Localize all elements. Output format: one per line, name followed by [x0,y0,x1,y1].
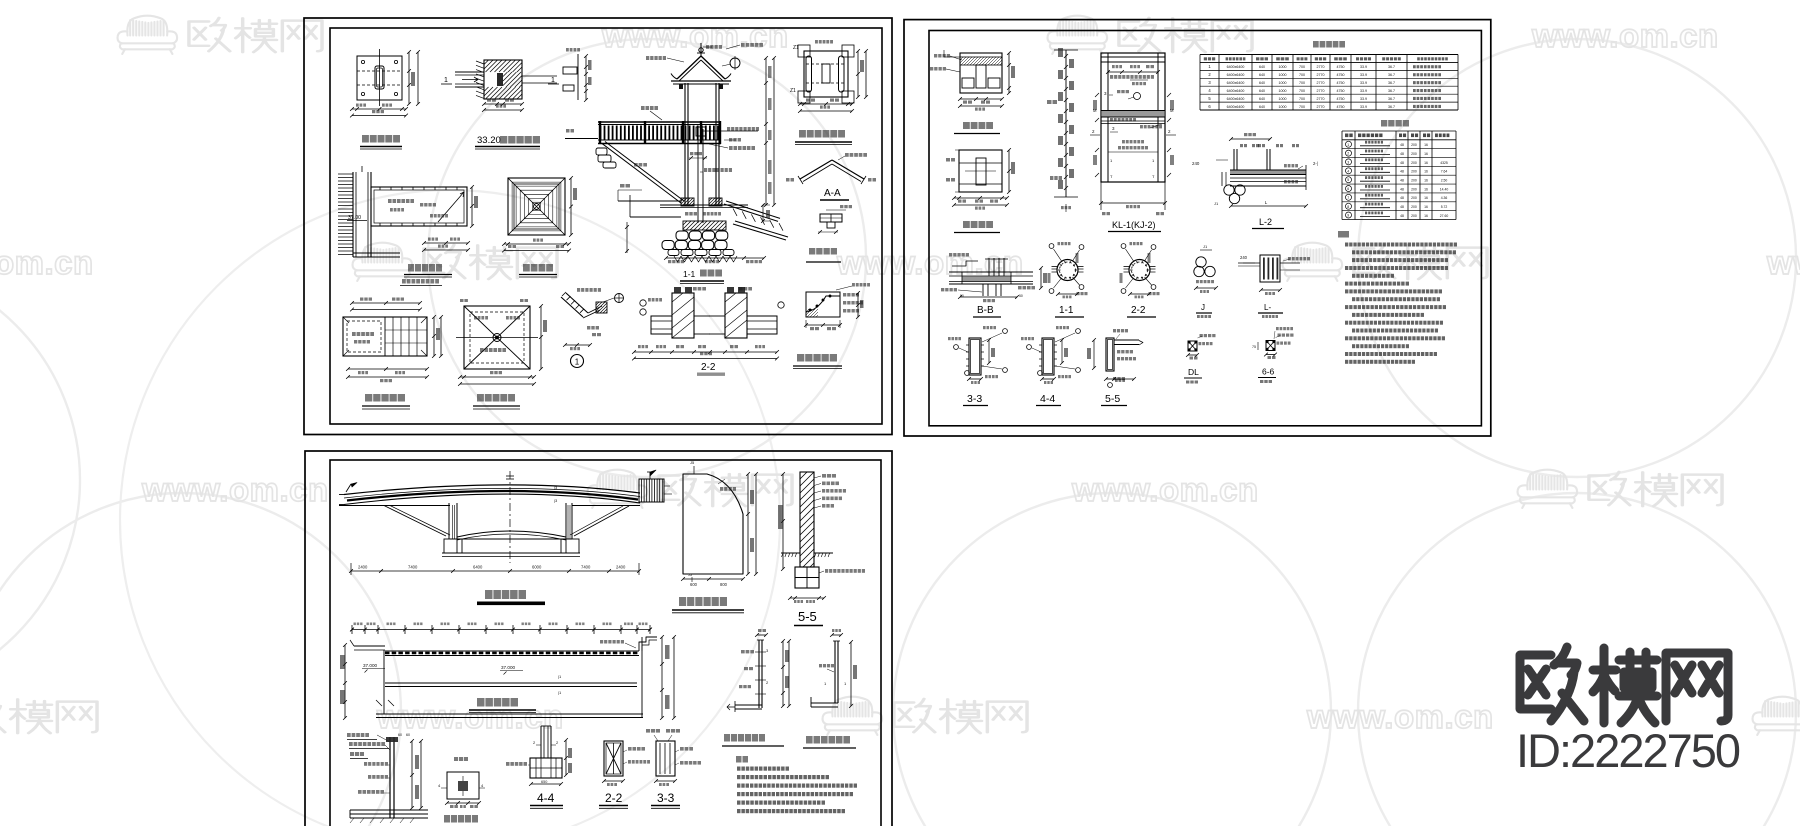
label: railing anchor title [806,736,813,744]
svg-text:2400: 2400 [358,565,368,570]
roof plan dims [570,178,572,235]
svg-text:B-B: B-B [977,305,994,316]
svg-text:2.50: 2.50 [1441,179,1448,183]
detail: cornice rebar section [806,292,840,317]
svg-text:48: 48 [1400,179,1404,183]
svg-text:2-2: 2-2 [701,362,716,373]
svg-text:16: 16 [1424,187,1428,191]
eave detail dim [565,344,590,346]
svg-text:J: J [1201,303,1205,312]
railing foundation right dims [411,741,413,808]
pavilion base platform [660,204,748,206]
svg-text:60: 60 [406,733,410,737]
section 5-5: wall with hatch [800,472,814,567]
B-B lower posts [982,284,984,296]
L-2 pile circles [1224,185,1234,195]
dim right of second-floor plan [471,187,473,226]
dim chain below 3320 detail [484,103,522,105]
label: base slab rebar title [963,221,970,228]
2-2 dim line [634,351,777,353]
svg-text:6-6: 6-6 [1262,367,1275,377]
watermark tiles: sofa + brand + www.om.cn [118,16,178,54]
notes text block sheet 2 [1345,243,1348,247]
svg-text:48: 48 [1400,196,1404,200]
svg-text:7.64: 7.64 [1441,170,1448,174]
svg-text:33.9: 33.9 [1360,97,1367,101]
svg-text:4.36: 4.36 [1441,196,1448,200]
detail: B-B beam section [949,253,952,257]
ramp dim bracket [762,205,764,221]
svg-text:200: 200 [1411,143,1417,147]
svg-text:2-2: 2-2 [605,791,623,805]
stair stones left [596,148,607,155]
svg-text:3: 3 [1347,161,1349,165]
2-2 right beam [747,316,777,334]
dims above second-floor label [424,242,468,244]
detail: brick pad plan [454,757,458,761]
svg-text:640: 640 [1259,89,1265,93]
svg-text:1: 1 [444,77,448,84]
dim chain below first-floor plan [352,108,406,110]
svg-text:J5: J5 [688,573,692,577]
pavilion columns [684,83,686,205]
bridge elevation: arch between piers [457,531,566,537]
svg-text:200: 200 [1411,205,1417,209]
svg-text:6400x6400: 6400x6400 [1227,73,1245,77]
5-5 left dim [782,474,784,569]
wing wall right dims [747,474,749,574]
plan: roof plan (hip) [508,178,565,235]
svg-text:700: 700 [1299,97,1305,101]
svg-text:A-A: A-A [824,188,841,199]
svg-text:200: 200 [1411,214,1417,218]
svg-text:48: 48 [1400,187,1404,191]
detail: 3-3 column section [969,338,981,375]
anchor post right dim [850,642,852,706]
stone foundation stack [676,231,688,240]
svg-text:200: 200 [1411,152,1417,156]
svg-text:33.9: 33.9 [1360,89,1367,93]
second-floor structure dims below [348,368,427,370]
svg-text:6400x6400: 6400x6400 [1227,105,1245,109]
svg-text:1000: 1000 [1279,73,1287,77]
svg-text:16: 16 [1424,170,1428,174]
svg-text:4750: 4750 [1337,73,1345,77]
plan: first-floor column plan [357,56,402,100]
bridge railing band with balusters [598,121,721,123]
svg-text:4750: 4750 [1337,81,1345,85]
svg-text:800: 800 [720,582,728,587]
svg-text:16: 16 [1424,214,1428,218]
L-2 bottom beam [1230,181,1306,183]
svg-text:4750: 4750 [1337,105,1345,109]
dim chain right of first-floor plan [408,52,410,104]
svg-text:650: 650 [541,780,547,784]
svg-text:36.7: 36.7 [1388,97,1395,101]
svg-text:6000: 6000 [532,565,542,570]
pier cap dims [1008,53,1010,93]
sheet 3 inner border [330,460,881,826]
svg-text:5.72: 5.72 [1441,205,1448,209]
label: bridge plan title [477,698,485,707]
detail: hanging beam end [820,214,842,222]
svg-text:700: 700 [1299,89,1305,93]
svg-text:37.000: 37.000 [501,665,515,670]
label: wing wall title [679,597,686,606]
sheet 1 inner border [330,28,882,424]
svg-text:48: 48 [1400,170,1404,174]
bridge elevation: main beam thick line [347,491,638,501]
svg-text:640: 640 [1259,73,1265,77]
elevation annotation chain [1065,50,1067,197]
svg-text:1-1: 1-1 [1059,305,1074,316]
label: roof plan title [523,264,530,272]
plan: roof structure plan [464,306,530,369]
plan: second-floor structure plan [352,302,420,304]
detail: 4-4 column section [1042,338,1054,375]
L-2 bottom dim [1231,205,1306,207]
plan: first-floor structure plan [804,51,848,97]
site brand caption: om brand glyphs [1520,647,1728,723]
bridge elevation: embankment slopes [384,506,446,537]
svg-text:4750: 4750 [1337,89,1345,93]
svg-text:2770: 2770 [1317,89,1325,93]
detail: railing post foundation labels [347,733,351,737]
B-B dim and label [960,296,1017,298]
svg-text:1: 1 [575,358,580,367]
svg-text:36.7: 36.7 [1388,89,1395,93]
floor hatch strip [683,221,726,230]
svg-text:7400: 7400 [581,565,591,570]
mid column note [704,168,707,172]
detail: 2-2 circular pier section [1129,260,1150,281]
svg-text:www.om.cn: www.om.cn [601,17,789,54]
detail: A-A ridge section [800,160,864,179]
sheet 2 inner border [929,31,1481,426]
svg-text:6400x6400: 6400x6400 [1227,97,1245,101]
label: railing foundation title [444,815,450,823]
mid-post right dims [782,641,784,706]
sheet 1 outer border [304,18,892,435]
ground hatch under foundation [674,256,681,262]
svg-text:www.om.cn: www.om.cn [1531,17,1719,54]
detail: railing mid-post rebar [757,634,766,636]
svg-text:4750: 4750 [1337,65,1345,69]
bridge elevation: center axis [509,471,511,563]
svg-text:4-4: 4-4 [1040,393,1055,405]
railing leader note [641,106,645,110]
svg-text:1000: 1000 [1279,65,1287,69]
foundation dim line [666,257,764,259]
svg-text:640: 640 [1259,105,1265,109]
table: KL-1 rebar schedule [1342,130,1456,132]
svg-text:33.9: 33.9 [1360,105,1367,109]
hanging center post [697,129,699,223]
KL-1 gray beam band [1102,111,1164,117]
detail: pier stub section [577,54,579,100]
detail: pier cap rebar plan [960,53,1002,93]
detail: 2-2 joint left column [672,293,694,338]
svg-text:6400x6400: 6400x6400 [1227,89,1245,93]
bridge plan: guardrail top edge [385,650,639,652]
label: first-floor plan title [362,135,369,143]
detail: DL small tie section [1188,341,1197,351]
label: cornice rebar title [797,354,804,362]
bridge plan: top dim chain [352,629,650,631]
railing foundation mid labels [364,762,367,766]
label: second-floor plan title [408,264,414,272]
bridge elevation: piers [448,503,450,539]
svg-text:6400: 6400 [473,565,483,570]
5-5 footing [795,567,819,588]
bridge plan: deck mid lines [385,682,637,684]
label: railing mid-post title [724,734,730,742]
KL-1 top zone annotations [1108,71,1158,73]
table: pile schedule title [1313,41,1319,48]
label: bridge elevation title [485,590,493,599]
svg-text:www.om.cn: www.om.cn [0,244,94,281]
bridge plan: left edge and dims [383,650,385,714]
svg-text:240: 240 [1240,255,1248,260]
axis bubble at roof [730,58,740,68]
bubble label 1 [571,355,584,368]
svg-text:50: 50 [1019,294,1023,298]
detail: 2-2 baluster section [604,741,623,776]
notes title sheet 3 [736,756,742,763]
svg-text:640: 640 [1259,81,1265,85]
svg-text:200: 200 [1411,161,1417,165]
svg-text:37.000: 37.000 [363,663,377,668]
right stepped ramp [724,204,778,221]
label: roof structure title [477,394,484,402]
svg-text:L-2: L-2 [1259,217,1272,227]
svg-text:1: 1 [1347,143,1349,147]
svg-text:www.om.cn: www.om.cn [1306,698,1494,735]
svg-text:5: 5 [1347,178,1349,182]
detail: 6-6 small tie section [1266,341,1275,351]
svg-text:33.20: 33.20 [477,135,501,146]
svg-text:640: 640 [1259,65,1265,69]
svg-text:DL: DL [1188,367,1199,377]
svg-text:1-1: 1-1 [683,269,696,279]
detail: 5-5 column with arm [1106,338,1114,371]
detail: 1-1 circular pier section [1057,260,1078,281]
label: hanging beam title [809,248,815,255]
svg-text:36.7: 36.7 [1388,73,1395,77]
detail: eave flashing [563,300,583,318]
svg-text:5-5: 5-5 [1105,393,1120,405]
bridge elevation: left flag [346,484,351,492]
svg-text:www.om.cn: www.om.cn [376,698,564,735]
svg-text:2-|: 2-| [1313,161,1318,166]
pavilion section: roof [677,56,725,79]
svg-text:4: 4 [1347,169,1349,173]
label: first-floor structure title [799,130,806,138]
svg-text:36.7: 36.7 [1388,65,1395,69]
svg-text:48: 48 [1400,152,1404,156]
detail: 3320 beam to wall connection [455,71,484,73]
right notes of railing [727,127,730,131]
svg-text:1000: 1000 [1279,105,1287,109]
stair rectangle of second-floor plan [371,187,467,226]
svg-text:200: 200 [1411,187,1417,191]
bridge plan: right edge and dims [641,637,643,717]
bridge elevation dim line [351,570,639,572]
svg-text:www.om.cn: www.om.cn [1766,244,1800,281]
svg-text:9: 9 [1347,214,1349,218]
svg-text:16: 16 [1424,205,1428,209]
svg-text:16: 16 [1424,179,1428,183]
svg-text:48: 48 [1400,205,1404,209]
svg-text:ID:2222750: ID:2222750 [1516,724,1740,777]
svg-text:1000: 1000 [1279,97,1287,101]
frame elevation KL-1(KJ-2) [1101,53,1165,182]
svg-text:2770: 2770 [1317,73,1325,77]
svg-text:1000: 1000 [1279,81,1287,85]
svg-text:6400x6400: 6400x6400 [1227,65,1245,69]
roof leader notes [646,56,649,60]
svg-text:7: 7 [1347,196,1349,200]
KL-1 bottom dims [1100,182,1102,210]
svg-text:36.7: 36.7 [1388,81,1395,85]
svg-text:6400x6400: 6400x6400 [1227,81,1245,85]
label: second-floor structure title [365,394,372,402]
svg-text:37.00: 37.00 [348,215,361,221]
sheet 3 outer border [305,451,892,826]
svg-text:33.9: 33.9 [1360,65,1367,69]
svg-text:1000: 1000 [1279,89,1287,93]
5-5 leader notes right [822,474,826,478]
dim right of structure plan [857,51,859,97]
svg-text:200: 200 [1411,179,1417,183]
small dim at post base [689,157,707,159]
svg-text:2770: 2770 [1317,65,1325,69]
detail: railing anchor rebar [832,634,841,636]
watermark circles [1358,39,1796,477]
svg-text:L-: L- [1264,303,1271,312]
pavilion right dim chain [765,58,767,205]
bridge elevation: base chamber [450,538,572,540]
dims below structure plan [800,103,852,105]
svg-text:4750: 4750 [1337,97,1345,101]
svg-text:36.7: 36.7 [1388,105,1395,109]
svg-text:www.om.cn: www.om.cn [141,471,329,508]
svg-text:16: 16 [1424,161,1428,165]
2-2 leader bubbles left [640,300,646,306]
svg-text:48: 48 [1400,161,1404,165]
svg-text:2770: 2770 [1317,97,1325,101]
sheet 2 outer border [904,20,1491,436]
detail: L-2 beam elevation [1231,138,1270,140]
table: pile schedule [1200,54,1458,56]
svg-text:3-3: 3-3 [967,393,982,405]
notes text block sheet 3 [737,767,741,771]
label: pier cap rebar title [963,122,970,129]
svg-text:2770: 2770 [1317,81,1325,85]
svg-text:KL-1(KJ-2): KL-1(KJ-2) [1112,220,1156,230]
svg-text:16: 16 [1424,152,1428,156]
5-5 ground hatch [781,552,800,554]
axis bubble with cross [615,294,624,303]
svg-text:48: 48 [1400,143,1404,147]
L-2 top beam with gray band [1230,171,1306,175]
svg-text:2: 2 [1347,152,1349,156]
svg-text:16: 16 [1424,143,1428,147]
svg-text:600: 600 [690,582,698,587]
svg-text:33.9: 33.9 [1360,81,1367,85]
svg-text:700: 700 [1299,105,1305,109]
terrace vertical dim [626,222,628,253]
left terrace lines [618,200,681,202]
svg-text:3-3: 3-3 [657,791,675,805]
svg-text:27.60: 27.60 [1440,214,1449,218]
B-B right bracket [1040,268,1042,288]
second-floor plan bottom wall [353,252,400,254]
pavilion section: finial [699,48,703,52]
svg-text:7400: 7400 [408,565,418,570]
stair stringer diagonal [602,143,681,203]
svg-text:75: 75 [1252,345,1256,349]
cornice dims [857,293,859,317]
bridge elevation: deck arcs [344,485,640,495]
svg-text:www.om.cn: www.om.cn [1071,471,1259,508]
svg-text:700: 700 [1299,73,1305,77]
svg-text:4-4: 4-4 [537,791,555,805]
svg-text:2400: 2400 [616,565,626,570]
svg-text:Z1: Z1 [790,88,796,94]
svg-text:640: 640 [1259,97,1265,101]
svg-text:6: 6 [1347,187,1349,191]
detail: base slab rebar plan [959,150,1002,192]
svg-text:Z1: Z1 [793,45,799,51]
svg-text:200: 200 [1411,170,1417,174]
svg-text:4325: 4325 [1440,161,1448,165]
svg-text:700: 700 [1299,81,1305,85]
base slab dims [1008,150,1010,192]
svg-text:700: 700 [1299,65,1305,69]
2-2 left beam [651,316,672,334]
railing foundation wall [389,737,391,818]
KL-1 column side ticks [1095,93,1099,97]
plan: second-floor plan with comb wall [352,172,354,257]
svg-text:16: 16 [1424,196,1428,200]
svg-text:2770: 2770 [1317,105,1325,109]
roof structure dims [460,376,534,378]
wing wall bottom dims [683,578,743,580]
svg-text:48: 48 [1400,214,1404,218]
svg-text:1: 1 [551,77,555,84]
detail: 4-4 tee foundation [540,726,542,758]
svg-text:www.om.cn: www.om.cn [836,244,1024,281]
svg-text:2-2: 2-2 [1131,305,1146,316]
svg-text:50: 50 [960,294,964,298]
table: KL-1 rebar title [1381,120,1387,127]
bridge plan: right wing corner [639,637,657,651]
detail: 2-2 joint right column [725,293,747,338]
walkway line left of pavilion [565,138,598,140]
5-5 bottom dim [790,597,824,599]
svg-text:5-5: 5-5 [798,609,817,624]
bridge elevation: ground line [339,505,450,507]
svg-text:8: 8 [1347,205,1349,209]
svg-text:33.9: 33.9 [1360,73,1367,77]
notes title sheet 2 [1338,231,1349,238]
svg-text:240: 240 [1192,161,1200,166]
bridge plan: bottom edge [376,713,643,715]
svg-text:200: 200 [1411,196,1417,200]
detail: 3-3 baluster section [646,729,650,733]
railing foundation base [350,809,428,811]
